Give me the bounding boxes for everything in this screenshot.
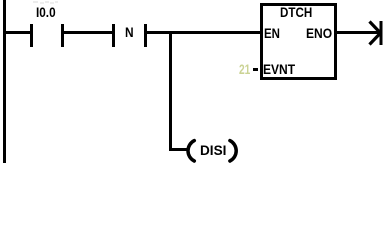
contact N right bar [144, 24, 147, 47]
coil DISI label [200, 143, 226, 157]
wire ENO to right arrow [337, 31, 379, 34]
arrow continuation symbol [364, 18, 386, 48]
wire contact I0.0 to contact N [63, 31, 112, 34]
coil DISI right parenthesis [224, 136, 240, 165]
wire contact N to DTCH box EN [146, 31, 260, 34]
wire rail to contact I0.0 [5, 31, 30, 34]
pin EN [264, 26, 280, 40]
faint cropped text remnant top-left [31, 0, 58, 5]
label I0.0 [36, 5, 56, 19]
branch wire horizontal to coil [169, 148, 188, 151]
contact N left bar [112, 24, 115, 47]
pin EVNT [263, 62, 295, 76]
contact I0.0 right bar [61, 24, 64, 47]
wire stub EVNT input [253, 68, 258, 71]
value 21 at EVNT [239, 62, 250, 76]
block title DTCH [280, 5, 312, 19]
left power rail [3, 0, 6, 163]
function block DTCH box [260, 3, 338, 80]
coil DISI left parenthesis [184, 136, 200, 165]
pin ENO [306, 26, 332, 40]
branch wire down to DISI coil [169, 31, 172, 151]
contact I0.0 left bar [30, 24, 33, 47]
label N [125, 25, 134, 39]
